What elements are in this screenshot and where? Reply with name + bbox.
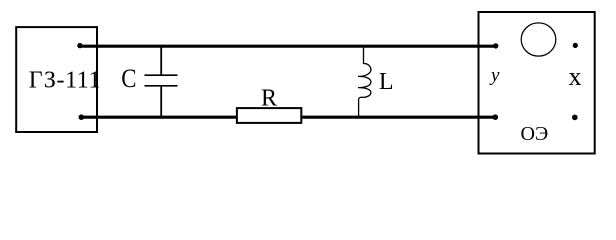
generator top terminal dot [77, 43, 82, 48]
oscilloscope x terminal dot top [573, 43, 578, 48]
oscilloscope bottom input terminal dot [493, 114, 499, 120]
svg-text:R: R [261, 85, 277, 111]
resistor R body [237, 108, 301, 123]
svg-text:x: x [569, 62, 582, 91]
svg-text:y: y [489, 65, 500, 86]
label R [261, 85, 277, 111]
label OE [521, 123, 549, 145]
svg-text:C: C [121, 64, 136, 93]
oscilloscope x terminal dot bottom [572, 115, 578, 121]
oscilloscope y input terminal dot [493, 43, 498, 48]
capacitor C bottom lead [160, 87, 162, 117]
svg-text:ОЭ: ОЭ [521, 123, 549, 145]
generator bottom terminal dot [79, 114, 85, 120]
capacitor C top plate [145, 74, 178, 76]
capacitor C bottom plate [145, 85, 178, 87]
top wire [80, 45, 496, 48]
label x [569, 62, 582, 91]
label y [489, 65, 500, 86]
bottom wire left segment [81, 116, 237, 119]
capacitor C top lead [160, 47, 162, 75]
label ГЗ-111 [29, 68, 101, 94]
CRT screen circle [521, 23, 556, 56]
bottom wire right segment [301, 116, 495, 119]
label L [379, 69, 394, 95]
label C [121, 64, 136, 93]
svg-text:L: L [379, 69, 394, 95]
svg-text:ГЗ-111: ГЗ-111 [29, 68, 101, 94]
inductor L coil [358, 47, 371, 117]
generator box G3-111 [16, 27, 97, 132]
oscilloscope box OE [479, 12, 595, 154]
